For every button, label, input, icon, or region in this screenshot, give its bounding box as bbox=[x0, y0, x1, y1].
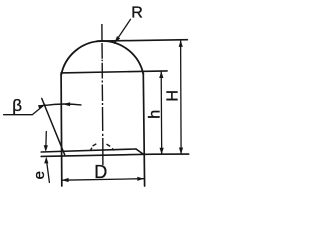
H dimension line bbox=[180, 40, 183, 154]
arrowhead D right bbox=[137, 177, 144, 181]
svg-text:β: β bbox=[12, 96, 22, 115]
bevel face line (left, angle beta) bbox=[42, 99, 65, 155]
hidden inner knuckle dashed arc bbox=[91, 144, 114, 151]
svg-text:h: h bbox=[147, 110, 164, 119]
e dimension lower stem bbox=[47, 163, 50, 183]
arrowhead beta leader bbox=[38, 105, 45, 110]
arrowhead h top bbox=[159, 71, 163, 78]
right bevel of bottom rim bbox=[136, 149, 143, 154]
arrowhead e down bbox=[44, 145, 48, 152]
arrowhead e up bbox=[44, 157, 48, 164]
D dimension line bbox=[62, 179, 144, 181]
h dimension line bbox=[160, 72, 163, 155]
arrowhead angle arc pointing left at wall bbox=[63, 102, 70, 106]
left wall and D extension bbox=[60, 74, 63, 186]
beta leader line bbox=[4, 104, 45, 114]
e dimension upper stem bbox=[45, 132, 47, 146]
beta angle dimension arc bbox=[45, 104, 81, 105]
right wall and D extension bbox=[143, 74, 144, 187]
arrowhead D left bbox=[62, 178, 69, 182]
arrowhead R (tip on dome arc) bbox=[114, 36, 120, 43]
dome crown arc R bbox=[61, 41, 143, 75]
arrowhead h bottom bbox=[160, 148, 164, 155]
svg-text:e: e bbox=[31, 171, 48, 179]
centerline (vertical dash-dot axis) bbox=[102, 24, 103, 165]
bottom edge line bbox=[41, 154, 189, 156]
tangent line (top of straight flange) bbox=[61, 71, 167, 73]
apex extension line bbox=[97, 40, 187, 41]
svg-text:R: R bbox=[131, 5, 143, 22]
svg-text:D: D bbox=[94, 162, 107, 182]
svg-text:H: H bbox=[165, 90, 182, 102]
upper edge line of bottom rim bbox=[41, 149, 136, 152]
arrowhead H top bbox=[179, 40, 183, 47]
arrowhead H bottom bbox=[179, 148, 183, 155]
R leader line bbox=[115, 19, 131, 43]
